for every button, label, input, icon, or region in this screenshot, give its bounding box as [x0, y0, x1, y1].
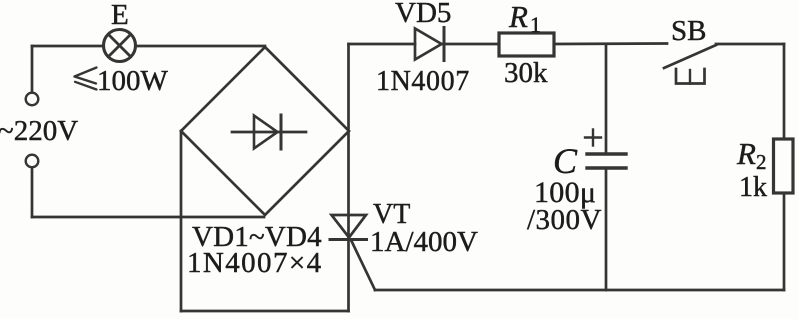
svg-text:/300V: /300V: [527, 204, 602, 236]
diode VD5 cathode bar: [443, 28, 446, 61]
svg-text:1N4007: 1N4007: [376, 66, 470, 97]
wire top-left horizontal from AC terminal to bridge top corner: [32, 45, 265, 48]
lamp E cross: [109, 35, 131, 57]
wire stub upper terminal: [31, 46, 34, 92]
thyristor VT triangle: [332, 215, 367, 238]
svg-text:2: 2: [756, 150, 767, 174]
svg-text:R: R: [508, 0, 528, 34]
diode VD5 triangle: [415, 29, 442, 60]
wire bridge left corner down: [180, 131, 183, 311]
wire lower horizontal to bridge bottom corner: [32, 216, 264, 219]
thyristor VT cathode bar: [330, 238, 367, 241]
wire capacitor branch down from node: [605, 44, 608, 153]
svg-text:30k: 30k: [504, 57, 548, 89]
terminal upper ~220V: [26, 93, 39, 106]
switch SB push-button actuator bracket: [676, 69, 705, 84]
svg-text:SB: SB: [671, 15, 706, 47]
bridge inner diode cathode bar: [280, 115, 283, 149]
capacitor C top plate: [587, 152, 626, 155]
svg-text:1N4007×4: 1N4007×4: [187, 247, 323, 279]
svg-text:1k: 1k: [739, 172, 767, 203]
svg-text:1: 1: [530, 12, 541, 37]
resistor R2 body: [774, 139, 794, 193]
thyristor VT gate lead: [352, 241, 376, 290]
capacitor C bottom plate: [587, 166, 626, 169]
terminal lower ~220V: [26, 155, 39, 168]
wire R2 bottom down: [783, 193, 786, 290]
wire bridge right corner vertical (up to VD5 rail, down to VT): [347, 44, 350, 311]
bridge rectifier VD1~VD4 diamond: [181, 47, 349, 215]
svg-text:100W: 100W: [97, 65, 169, 97]
capacitor plus sign: [585, 136, 601, 138]
svg-text:VD5: VD5: [395, 0, 451, 29]
svg-text:~220V: ~220V: [0, 115, 78, 147]
svg-text:C: C: [553, 141, 578, 181]
wire stub lower terminal: [31, 168, 34, 217]
switch SB arm: [664, 45, 716, 68]
bridge inner diode triangle: [254, 116, 278, 149]
wire capacitor bottom down to gate rail: [605, 170, 608, 290]
wire SB to right corner: [716, 43, 784, 46]
wire gate rail bottom: [375, 289, 784, 292]
svg-text:R: R: [736, 136, 756, 171]
bridge inner diode lead line: [232, 131, 306, 134]
resistor R1 body: [499, 33, 554, 56]
wire from bridge + to VD5: [349, 43, 416, 46]
svg-text:1A/400V: 1A/400V: [370, 226, 478, 258]
less-equal sign of lamp rating: [75, 68, 97, 90]
wire right side down to R2: [783, 44, 786, 139]
wire bottom of bridge loop: [181, 310, 349, 313]
lamp E circle: [104, 30, 136, 62]
wire R1 to SB (through C junction): [554, 42, 667, 45]
wire VD5 to R1: [441, 43, 499, 46]
svg-text:E: E: [111, 0, 129, 31]
